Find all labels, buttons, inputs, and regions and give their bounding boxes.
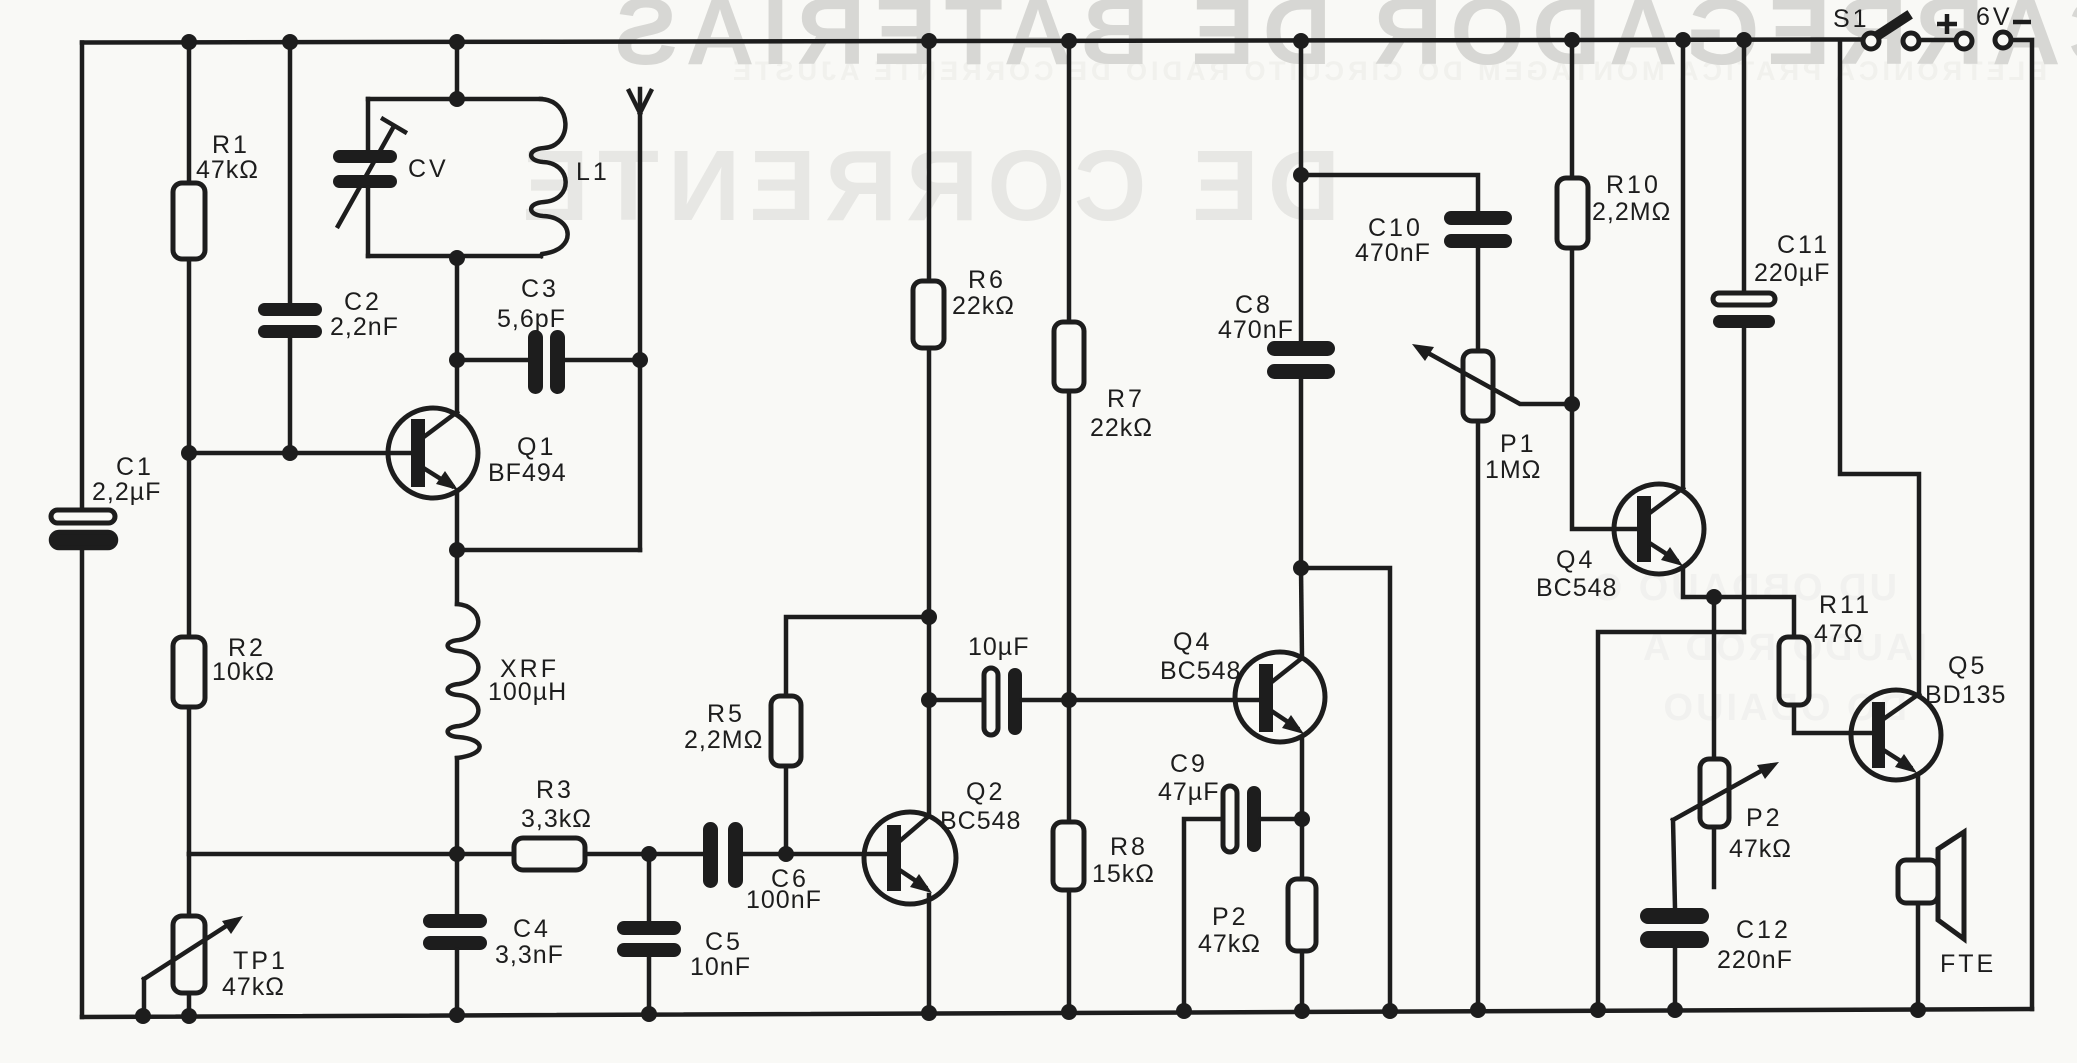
wire C11 to ground: [1598, 632, 1744, 1010]
resistor R10: [1557, 40, 1588, 404]
bleed-through mirrored title line 1: [606, 0, 2077, 85]
transistor Q4: [1614, 484, 1714, 597]
capacitor C5: [617, 854, 681, 1014]
transistor Q3 (labelled Q4): [1235, 652, 1325, 819]
svg-text:C12: C12: [1736, 916, 1791, 944]
svg-text:Q2: Q2: [966, 778, 1005, 806]
wire supply drop: [1840, 40, 1919, 694]
svg-text:22kΩ: 22kΩ: [952, 292, 1015, 320]
svg-text:15kΩ: 15kΩ: [1092, 860, 1155, 888]
bleed-through small text block: [1590, 567, 1927, 729]
inductor L1: [368, 99, 568, 256]
node base wire dots: [181, 445, 197, 461]
wire top rail: [82, 40, 1863, 43]
capacitor C10: [1301, 175, 1512, 351]
svg-text:47kΩ: 47kΩ: [222, 973, 285, 1001]
svg-text:2,2MΩ: 2,2MΩ: [684, 726, 763, 754]
node bottom rail dots: [135, 1008, 151, 1024]
node Q4 emitter dot: [1706, 589, 1722, 605]
battery terminal -: [1995, 32, 2011, 48]
wire bottom rail: [82, 1009, 2032, 1017]
capacitor C4: [423, 854, 487, 1015]
svg-text:C3: C3: [521, 275, 559, 303]
capacitor 10uF: [929, 668, 1069, 735]
node P1 wiper dot: [1564, 396, 1580, 412]
wire collector node to ground: [1301, 568, 1390, 1011]
svg-text:3,3nF: 3,3nF: [495, 941, 564, 969]
trimpot TP1: [144, 854, 243, 1016]
node C8 dots: [1293, 167, 1309, 183]
svg-text:C10: C10: [1368, 214, 1423, 242]
wire R10 to Q4 base: [1572, 404, 1637, 529]
capacitor C2: [258, 42, 322, 453]
svg-text:220nF: 220nF: [1717, 946, 1793, 974]
wire base line lower: [189, 852, 457, 857]
transistor Q5: [1851, 690, 1941, 860]
switch S1: [1863, 17, 1919, 49]
svg-text:C8: C8: [1235, 291, 1273, 319]
wire Q1 emitter feedback: [457, 548, 640, 553]
svg-text:R6: R6: [968, 266, 1006, 294]
svg-text:R5: R5: [707, 700, 745, 728]
node R5 top dot: [921, 609, 937, 625]
resistor R2: [173, 453, 205, 854]
svg-text:DE CORRENTE: DE CORRENTE: [513, 130, 1340, 242]
svg-text:R10: R10: [1606, 171, 1661, 199]
svg-text:R7: R7: [1107, 385, 1145, 413]
svg-text:C4: C4: [513, 915, 551, 943]
resistor R1: [173, 42, 205, 453]
svg-text:47kΩ: 47kΩ: [1729, 835, 1792, 863]
resistor R7: [1054, 41, 1084, 700]
svg-text:3,3kΩ: 3,3kΩ: [521, 805, 592, 833]
svg-text:Q5: Q5: [1948, 652, 1987, 680]
capacitor C1: [51, 510, 116, 548]
svg-text:TP1: TP1: [233, 947, 288, 975]
svg-text:6V: 6V: [1976, 3, 2013, 31]
transistor Q1: [388, 408, 478, 550]
svg-text:5,6pF: 5,6pF: [497, 305, 566, 333]
svg-text:470nF: 470nF: [1355, 239, 1431, 267]
resistor R8: [1053, 700, 1084, 1012]
svg-text:Q4: Q4: [1556, 546, 1595, 574]
svg-text:C11: C11: [1777, 231, 1830, 259]
inductor XRF: [448, 550, 480, 854]
svg-text:C9: C9: [1170, 750, 1208, 778]
capacitor C6: [649, 822, 785, 888]
node 10uF dots: [921, 692, 937, 708]
svg-text:47µF: 47µF: [1158, 778, 1219, 806]
wire left edge lower: [80, 548, 85, 1017]
svg-text:R3: R3: [536, 776, 574, 804]
potentiometer P1: [1412, 344, 1571, 1010]
svg-text:10µF: 10µF: [968, 633, 1029, 661]
wire Q1 base: [189, 451, 411, 456]
svg-text:BF494: BF494: [488, 459, 567, 487]
svg-text:R1: R1: [212, 131, 250, 159]
node C9 dot: [1294, 811, 1310, 827]
svg-text:CV: CV: [408, 155, 449, 183]
svg-text:10nF: 10nF: [690, 953, 751, 981]
svg-text:2,2nF: 2,2nF: [330, 313, 399, 341]
node R3 wire dots: [449, 846, 465, 862]
svg-text:47Ω: 47Ω: [1814, 620, 1864, 648]
capacitor C8: [1267, 40, 1335, 658]
transistor Q2: [786, 812, 956, 1013]
svg-text:FTE: FTE: [1940, 950, 1996, 978]
svg-text:220µF: 220µF: [1754, 259, 1830, 287]
svg-text:R11: R11: [1819, 591, 1872, 619]
node top rail dots: [181, 34, 197, 50]
wire left edge: [80, 43, 85, 511]
wire tank to collector: [455, 256, 460, 412]
speaker FTE: [1898, 832, 1964, 1010]
svg-text:100nF: 100nF: [746, 886, 822, 914]
svg-text:10kΩ: 10kΩ: [212, 658, 275, 686]
svg-text:DO ODAIUO: DO ODAIUO: [1660, 687, 1907, 729]
wire right edge: [2011, 40, 2032, 1009]
svg-text:BC548: BC548: [1536, 574, 1617, 602]
resistor R11: [1714, 597, 1872, 733]
svg-text:ELETRONICA PRATICA MONTAGEM: ELETRONICA PRATICA MONTAGEM DO CIRCUITO …: [729, 56, 2047, 86]
svg-text:P1: P1: [1500, 430, 1537, 458]
wire switch to battery: [1919, 38, 1956, 43]
svg-text:Q1: Q1: [517, 433, 556, 461]
label battery minus: [2013, 20, 2031, 25]
capacitor C9: [1184, 786, 1302, 1011]
svg-text:C5: C5: [705, 928, 743, 956]
svg-text:Q4: Q4: [1173, 628, 1212, 656]
svg-text:C2: C2: [344, 288, 382, 316]
svg-text:47kΩ: 47kΩ: [1198, 930, 1261, 958]
svg-text:470nF: 470nF: [1218, 316, 1294, 344]
variable capacitor CV: [333, 99, 405, 256]
antenna: [629, 89, 651, 550]
battery terminal +: [1956, 33, 1972, 49]
svg-text:P2: P2: [1746, 804, 1783, 832]
svg-text:C1: C1: [116, 453, 154, 481]
svg-text:BC548: BC548: [940, 807, 1021, 835]
wire Q3 base: [1069, 698, 1259, 703]
bleed-through mirrored title line 2: [513, 130, 1340, 242]
node emitter dot: [449, 542, 465, 558]
svg-text:100µH: 100µH: [488, 678, 567, 706]
wire Q4 collector: [1681, 40, 1686, 488]
svg-text:S1: S1: [1833, 5, 1870, 33]
label battery plus: [1937, 14, 1957, 34]
potentiometer P2: [1673, 597, 1779, 887]
svg-text:47kΩ: 47kΩ: [196, 156, 259, 184]
resistor R3: [457, 838, 649, 870]
svg-text:P2: P2: [1212, 903, 1249, 931]
capacitor C11: [1713, 40, 1775, 632]
svg-text:1MΩ: 1MΩ: [1485, 456, 1541, 484]
svg-text:BC548: BC548: [1160, 657, 1241, 685]
wire tank top: [455, 42, 460, 99]
resistor R6: [913, 41, 944, 816]
node tank dots: [449, 91, 465, 107]
svg-text:22kΩ: 22kΩ: [1090, 414, 1153, 442]
svg-text:2,2µF: 2,2µF: [92, 478, 161, 506]
capacitor C12: [1640, 820, 1709, 1010]
svg-text:R8: R8: [1110, 833, 1148, 861]
capacitor C3: [457, 330, 640, 394]
svg-text:BD135: BD135: [1925, 681, 2006, 709]
node C3 dots: [449, 352, 465, 368]
svg-text:2,2MΩ: 2,2MΩ: [1592, 198, 1671, 226]
resistor R5: [771, 617, 929, 854]
svg-text:L1: L1: [576, 158, 610, 186]
potentiometer P2 (middle): [1288, 819, 1316, 1011]
bleed-through header row: [729, 56, 2047, 86]
